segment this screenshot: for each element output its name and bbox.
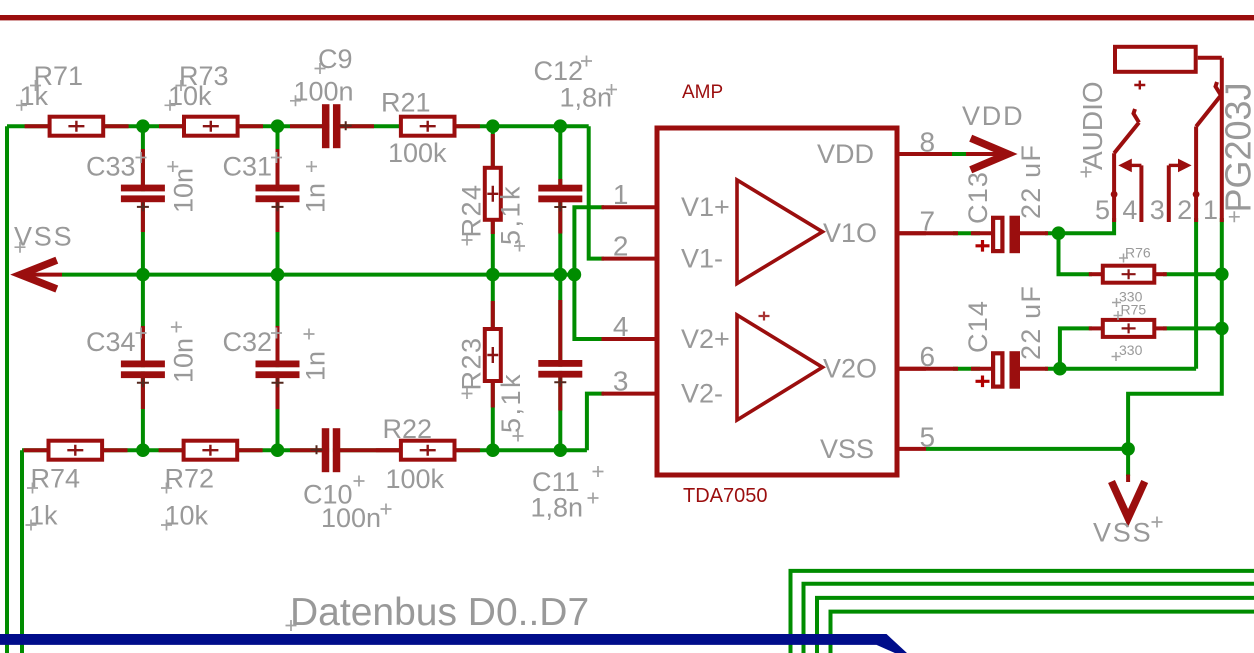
junction [1053,362,1067,376]
label C11 name [532,466,604,497]
svg-text:10n: 10n [169,338,199,383]
svg-text:4: 4 [1122,195,1137,225]
label C11 value [531,492,599,522]
resistor R76 [1089,266,1167,283]
junction [1121,442,1135,456]
junction [271,443,285,457]
label C34 value [169,322,199,384]
label C12 name [534,56,593,87]
svg-text:1,8n: 1,8n [560,82,613,112]
resistor R74 [24,441,128,460]
svg-text:6: 6 [920,341,936,372]
svg-text:PG203J: PG203J [1218,82,1254,212]
svg-text:R24: R24 [457,183,487,237]
svg-text:5,1k: 5,1k [496,372,526,433]
svg-text:V1O: V1O [823,218,877,248]
wire pin5 to VSS net [926,447,1128,451]
svg-text:1,8n: 1,8n [531,492,584,522]
label C32 name [223,327,283,357]
wire to pin V1+ [574,207,604,274]
pin 8 [899,127,935,158]
wire VSS rail [62,273,574,277]
svg-text:R75: R75 [1121,301,1147,317]
label R72 name [161,464,214,494]
label R22 value [386,464,445,494]
svg-text:V2+: V2+ [681,324,730,354]
resistor R21 [401,117,480,136]
label C13 value [1016,144,1046,219]
capacitor C14 [899,351,1048,389]
label R24 name [457,183,487,245]
svg-text:R22: R22 [383,414,433,444]
junction [136,119,150,133]
wire pin6 to C14 [953,367,980,371]
resistor R24 [485,134,501,234]
wire bus D1 [804,584,1254,653]
svg-text:8: 8 [920,127,936,158]
svg-text:R74: R74 [31,464,81,494]
label C31 value [301,161,331,213]
resistor R22 [376,441,480,460]
label R72 value [161,501,209,531]
capacitor C12 [538,179,582,234]
svg-text:330: 330 [1119,342,1143,358]
connector pin 3 line and arrow [1169,159,1192,222]
svg-text:V1-: V1- [681,244,723,274]
svg-text:22 uF: 22 uF [1016,144,1046,219]
wire C12 column [558,126,562,274]
op-amp A2 triangle [737,312,823,421]
wire C14 to jack pin2 net [1045,367,1196,371]
svg-text:VDD: VDD [817,139,874,169]
wire jack pin1 down to VSS [1128,218,1222,476]
junction [1215,322,1229,336]
capacitor C10 [290,428,400,472]
label C14 name [963,300,993,353]
wire R24 column [491,126,495,274]
label R73 value [165,81,213,111]
svg-text:1k: 1k [20,81,49,111]
junction [486,443,500,457]
label R73 name [176,61,229,91]
svg-text:100n: 100n [294,76,354,106]
label C34 name [86,327,147,357]
svg-text:R21: R21 [381,88,431,118]
svg-text:10k: 10k [165,501,209,531]
svg-text:C33: C33 [86,152,136,182]
connector pin 2 line and lever [1193,82,1221,222]
svg-text:C34: C34 [86,327,136,357]
pin 3 [602,365,656,396]
label R75 value [1112,342,1143,361]
pin 5 [899,421,935,452]
label C12 value [560,82,618,112]
svg-text:1n: 1n [301,351,331,381]
svg-text:5: 5 [1095,195,1110,225]
label Datenbus D0..D7 [286,591,590,634]
label VSS left [14,222,73,253]
wire C14 to R75 [1060,328,1092,368]
label R23 name [457,336,487,399]
svg-text:4: 4 [613,311,629,342]
svg-text:22 uF: 22 uF [1016,285,1046,360]
label C33 name [86,152,147,182]
op-amp IC U1 TDA7050 body [657,128,897,475]
svg-text:5: 5 [920,421,936,452]
wire pin8 to VDD [950,152,968,156]
capacitor C13 [899,216,1048,254]
label AUDIO [1077,81,1108,177]
resistor R73 [159,117,263,136]
resistor R23 [485,301,501,408]
pin 2 [602,230,656,261]
junction [271,268,285,282]
connector pin 5 line and lever [1111,109,1139,222]
junction [486,119,500,133]
wire R23 column [491,275,495,451]
wire C34 column [141,275,145,451]
connector pin 1 line [1220,58,1224,222]
svg-text:TDA7050: TDA7050 [683,485,768,507]
junction [486,268,500,282]
label R71 value [16,81,49,111]
wire top rail [7,124,589,128]
wire R74 left vertical net [20,450,24,653]
pin 1 [602,179,656,210]
label C9 name [315,44,353,74]
wire C31 column [276,126,280,274]
svg-text:100k: 100k [386,464,445,494]
svg-text:1: 1 [1203,195,1218,225]
svg-text:C14: C14 [963,300,993,353]
pin 4 [602,311,656,342]
label C13 name [963,171,993,224]
VSS supply arrow right [1112,475,1145,519]
wire pin7 to C13 [953,231,980,235]
junction [554,443,568,457]
svg-text:V2O: V2O [823,354,877,384]
label R74 value [26,501,59,531]
label R21 name [381,88,431,118]
label C33 value [167,161,198,213]
junction [136,268,150,282]
wire C32 column [276,275,280,451]
svg-text:7: 7 [920,206,936,237]
svg-text:AMP: AMP [682,82,723,103]
resistor R72 [159,441,263,460]
op-amp A1 triangle [737,180,823,284]
pin 7 [899,206,935,237]
svg-text:10n: 10n [169,168,199,213]
svg-text:3: 3 [613,365,629,396]
wire bus D2 [817,598,1254,653]
junction [554,119,568,133]
svg-text:C31: C31 [223,152,273,182]
label R76 name [1119,245,1151,263]
junction [568,268,582,282]
connector pin 4 line and arrow [1118,159,1141,222]
svg-text:V2-: V2- [681,379,723,409]
wire C11 column [558,275,562,451]
label R24 value [496,184,526,252]
junction [136,443,150,457]
wire C13 to jack pin5 [1045,218,1114,233]
svg-text:100n: 100n [321,503,381,533]
svg-text:1: 1 [613,179,629,210]
label R76 value [1112,288,1143,307]
VSS supply arrow left [20,260,62,289]
wire bus D0 [791,571,1254,653]
wire left vertical net [5,126,9,653]
junction [1215,267,1229,281]
wire R75 to jack pin1 net [1163,326,1222,330]
capacitor C31 [256,149,300,232]
wire C13 to R76 [1059,233,1093,274]
svg-text:VDD: VDD [962,101,1024,131]
wire pin8 stub extension [899,152,952,156]
label C32 value [301,329,331,382]
svg-text:1n: 1n [301,183,331,213]
wire jack pin2 down [1194,218,1198,369]
capacitor C33 [121,149,165,232]
resistor R75 [1089,320,1167,337]
svg-text:VSS: VSS [820,434,874,464]
wire to pin V2- [587,394,604,451]
svg-text:100k: 100k [388,138,447,168]
wire R76 to jack pin1 net [1163,272,1222,276]
label R74 name [27,464,80,494]
pin 6 [899,341,935,372]
wire bottom rail [22,448,587,452]
label R22 name [383,414,433,444]
label C10 name [303,476,365,510]
svg-text:5,1k: 5,1k [496,184,526,245]
wire to pin V1- [589,126,604,258]
svg-text:3: 3 [1150,195,1165,225]
svg-text:R72: R72 [165,464,215,494]
label VSS right [1093,517,1163,548]
VDD supply arrow [966,138,1008,170]
connector PG203J body [1115,47,1222,90]
capacitor C32 [256,326,300,409]
svg-text:2: 2 [613,230,629,261]
label PG203J [1218,82,1254,222]
junction [1052,226,1066,240]
svg-text:2: 2 [1177,195,1192,225]
capacitor C11 [538,300,582,411]
svg-text:R76: R76 [1125,245,1151,261]
label R21 value [388,138,447,168]
junction [271,119,285,133]
svg-text:VSS: VSS [1093,518,1152,548]
capacitor C9 [290,104,374,148]
label C31 name [223,152,283,182]
svg-text:C9: C9 [318,44,353,74]
svg-text:1k: 1k [29,501,58,531]
wire to pin V2+ [574,275,604,339]
capacitor C34 [121,326,165,409]
label C14 value [1016,285,1046,360]
label R71 name [30,61,83,91]
wire bus D3 [831,612,1254,653]
svg-text:R23: R23 [457,336,487,390]
svg-text:V1+: V1+ [681,192,730,222]
label C10 value [321,503,392,533]
wire C33 column [141,126,145,274]
svg-text:C13: C13 [963,171,993,224]
svg-text:AUDIO: AUDIO [1077,81,1108,170]
bus Datenbus D0..D7 [0,634,908,653]
svg-text:C32: C32 [223,327,273,357]
label R23 value [496,372,526,442]
resistor R71 [25,117,129,136]
svg-text:10k: 10k [168,81,212,111]
label C9 value [290,76,354,106]
label R75 name [1114,301,1147,320]
svg-text:Datenbus D0..D7: Datenbus D0..D7 [290,591,589,634]
junction [554,268,568,282]
